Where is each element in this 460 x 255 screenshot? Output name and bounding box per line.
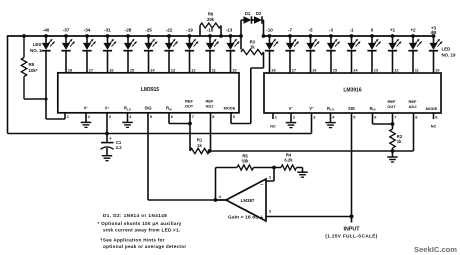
U2 pin 9 NC	[433, 113, 435, 119]
wire: LED anode rail (left segment)	[8, 35, 242, 37]
U1 pin labels	[84, 99, 236, 112]
LED 9 (-16 dB)	[205, 28, 219, 73]
wire U2 pin 7 REF OUT to R2	[392, 113, 394, 129]
diode D1 1N914	[241, 11, 252, 36]
svg-text:8: 8	[415, 114, 418, 119]
svg-text:14: 14	[353, 68, 358, 73]
LED 18 (+2 dB)	[408, 28, 422, 73]
svg-text:3: 3	[109, 114, 112, 119]
svg-text:15: 15	[130, 67, 135, 72]
LED 5 (-28 dB)	[123, 28, 137, 73]
LED 7 (-22 dB)	[164, 28, 178, 73]
wire feedback riser	[215, 168, 217, 201]
svg-text:3: 3	[269, 208, 272, 213]
svg-text:12: 12	[191, 67, 196, 72]
svg-text:V+: V+	[105, 105, 110, 110]
svg-text:RLO: RLO	[124, 106, 132, 112]
LED 13 (-5 dB)	[306, 28, 320, 73]
LED 4 (-31 dB)	[103, 28, 117, 73]
node V+ / C1	[105, 132, 109, 136]
svg-text:7: 7	[192, 114, 194, 119]
svg-text:R6: R6	[208, 12, 214, 17]
wire U1 pin 3 to V+ line	[106, 113, 108, 134]
svg-text:8: 8	[212, 114, 215, 119]
svg-text:SIG: SIG	[348, 106, 355, 111]
svg-text:4: 4	[332, 114, 335, 119]
svg-text:6: 6	[374, 114, 377, 119]
svg-text:4: 4	[129, 114, 132, 119]
resistor R5 33k	[216, 154, 282, 171]
LED 2 (-37 dB)	[61, 28, 75, 73]
svg-text:D2: D2	[256, 11, 262, 16]
resistor R8 10k (optional shunt)	[21, 36, 46, 99]
svg-text:NO. 1: NO. 1	[30, 48, 42, 53]
svg-text:-5: -5	[308, 28, 313, 33]
svg-text:2: 2	[269, 175, 272, 180]
wire: LED anode rail (right segment)	[264, 35, 434, 37]
svg-text:1k: 1k	[250, 44, 255, 49]
svg-text:2: 2	[293, 114, 296, 119]
svg-text:11: 11	[415, 68, 420, 73]
LED 6 (-25 dB)	[144, 28, 158, 73]
svg-text:SeekIC.com: SeekIC.com	[414, 245, 457, 254]
svg-text:RHI: RHI	[370, 106, 376, 112]
svg-text:-31: -31	[104, 28, 111, 33]
svg-text:OUT: OUT	[185, 104, 194, 109]
svg-text:4: 4	[219, 194, 222, 199]
svg-text:13: 13	[171, 67, 176, 72]
svg-text:15: 15	[333, 68, 338, 73]
LED 15 (-1 dB)	[347, 28, 361, 73]
svg-text:optional peak or average detec: optional peak or average detector	[103, 244, 186, 249]
IC U2 LM3916	[264, 73, 441, 113]
node: rail break left	[239, 34, 243, 38]
svg-text:INPUT: INPUT	[344, 227, 361, 233]
svg-text:sink current away from LED #1.: sink current away from LED #1.	[103, 227, 180, 232]
U2 pin labels	[289, 99, 438, 112]
node feedback junction	[272, 166, 276, 170]
svg-text:V+: V+	[309, 106, 314, 111]
svg-text:-19: -19	[186, 28, 193, 33]
svg-text:-34: -34	[84, 28, 91, 33]
svg-text:33k: 33k	[242, 159, 250, 164]
svg-text:-22: -22	[166, 28, 173, 33]
node pins 6-7	[188, 122, 192, 126]
LED 11 (-10 dB)	[265, 28, 279, 73]
node R1 right / ground bus	[208, 149, 212, 153]
svg-text:−: −	[260, 182, 263, 188]
svg-text:2: 2	[88, 114, 91, 119]
wire: ground bus from R1 to R2/pin8	[210, 150, 414, 152]
ground at U2 pin 4	[330, 113, 332, 122]
svg-text:-25: -25	[145, 28, 152, 33]
LED 8 (-19 dB)	[185, 28, 199, 73]
wire op-amp pin 2 to feedback	[266, 168, 274, 182]
op-amp IC U1 LM3915	[58, 73, 239, 113]
LED 10 (-13 dB)	[226, 28, 240, 73]
svg-text:1: 1	[67, 114, 70, 119]
capacitor C1 2.2uF	[101, 134, 123, 156]
resistor R1 1k	[190, 138, 210, 154]
ground at C1	[102, 156, 112, 161]
svg-text:2.2: 2.2	[116, 145, 122, 150]
svg-text:0: 0	[371, 28, 374, 33]
notes text	[98, 213, 187, 249]
svg-text:D1: D1	[245, 11, 251, 16]
diode D2 1N914	[252, 11, 264, 36]
svg-text:OUT: OUT	[387, 104, 396, 109]
ground at R4	[297, 172, 307, 177]
svg-text:MODE: MODE	[224, 106, 236, 111]
svg-text:LM3916: LM3916	[343, 87, 362, 93]
svg-text:-7: -7	[288, 28, 293, 33]
node op-amp output	[214, 198, 218, 202]
svg-text:14: 14	[150, 67, 155, 72]
svg-text:10: 10	[435, 68, 439, 73]
svg-text:12: 12	[394, 68, 399, 73]
svg-text:1: 1	[275, 114, 278, 119]
svg-text:* Optional shunts 100 µA auxil: * Optional shunts 100 µA auxiliary	[98, 221, 182, 226]
ground at U2 pin 2	[290, 113, 292, 122]
wire U2 SIG pin 5 to input node	[351, 113, 353, 217]
svg-text:LED: LED	[442, 47, 451, 52]
svg-text:5: 5	[150, 114, 153, 119]
wire U2 pin 8 REF ADJ down to ground bus	[413, 113, 415, 151]
LED 3 (-34 dB)	[82, 28, 96, 73]
svg-text:(1.25V FULL-SCALE): (1.25V FULL-SCALE)	[325, 234, 377, 239]
wire U1 MODE pin 9 to D2 cathode node	[231, 52, 264, 124]
svg-text:9: 9	[233, 114, 236, 119]
svg-text:ADJ: ADJ	[205, 104, 213, 109]
svg-text:10k*: 10k*	[29, 68, 38, 73]
wire op-amp pin 3 to input node	[266, 216, 352, 218]
svg-text:20k: 20k	[207, 17, 215, 22]
svg-text:Gain = 16 dB: Gain = 16 dB	[228, 214, 259, 219]
U2 pin 1 NC	[272, 113, 274, 119]
ground at R2	[387, 157, 397, 162]
svg-text:NO. 19: NO. 19	[442, 53, 456, 58]
svg-text:18: 18	[271, 68, 276, 73]
svg-text:1k: 1k	[197, 143, 202, 148]
node: rail break right	[262, 34, 266, 38]
node: R8/LED1 junction	[44, 97, 47, 100]
svg-text:+1: +1	[390, 28, 396, 33]
svg-text:-37: -37	[63, 28, 70, 33]
LED 12 (-7 dB)	[285, 28, 299, 73]
svg-text:+: +	[260, 215, 263, 221]
wire U1 pin 6 RHI to pin 7	[169, 113, 190, 124]
svg-text:11: 11	[212, 67, 217, 72]
svg-text:3: 3	[313, 114, 316, 119]
LED 16 (0 dB)	[367, 28, 381, 73]
svg-text:-10: -10	[266, 28, 273, 33]
svg-text:16: 16	[109, 67, 114, 72]
LED 1 (-40 dB)	[41, 28, 65, 119]
svg-text:LM3915: LM3915	[141, 87, 160, 93]
wire U2 pin 6 RHI to pin 7	[373, 113, 393, 124]
svg-text:ADJ: ADJ	[408, 104, 416, 109]
LED 14 (-3 dB)	[326, 28, 340, 73]
node R2 bottom / ground	[391, 149, 395, 153]
svg-text:+: +	[109, 136, 112, 141]
resistor R6 20k	[200, 12, 221, 36]
svg-text:-3: -3	[329, 28, 334, 33]
svg-text:6: 6	[171, 114, 174, 119]
svg-text:LM387: LM387	[241, 198, 255, 203]
wire U1 pin 8 REF ADJ down	[210, 113, 212, 151]
LED 17 (+1 dB)	[388, 28, 402, 73]
resistor R4 6.2k	[281, 153, 303, 172]
svg-text:V−: V−	[84, 105, 89, 110]
svg-text:D1, D2: 1N914 or 1N4148: D1, D2: 1N914 or 1N4148	[103, 213, 167, 218]
svg-text:5: 5	[353, 114, 356, 119]
svg-text:10: 10	[232, 67, 236, 72]
resistor R3 1k	[241, 36, 264, 55]
node INPUT	[349, 214, 353, 218]
svg-text:†See Application Hints for: †See Application Hints for	[100, 237, 165, 242]
svg-text:+2: +2	[410, 28, 416, 33]
svg-text:-1: -1	[349, 28, 354, 33]
wire op-amp output to node	[216, 199, 227, 201]
svg-text:17: 17	[89, 67, 93, 72]
svg-text:1k: 1k	[397, 139, 402, 144]
node U2 pins 6-7	[391, 122, 395, 126]
svg-text:SIG: SIG	[144, 106, 151, 111]
svg-text:16: 16	[312, 68, 317, 73]
svg-text:9: 9	[435, 114, 438, 119]
svg-text:LED: LED	[33, 42, 42, 47]
svg-text:dB: dB	[431, 30, 437, 35]
op-amp U3 LM387	[219, 175, 272, 222]
svg-text:13: 13	[374, 68, 379, 73]
svg-text:V−: V−	[289, 106, 294, 111]
svg-text:R8: R8	[29, 62, 35, 67]
svg-text:NC: NC	[431, 124, 437, 128]
svg-text:MODE: MODE	[426, 106, 438, 111]
wire U1 SIG pin 5 to op-amp output	[148, 113, 226, 200]
resistor R2 1k	[390, 129, 403, 157]
svg-text:-40: -40	[43, 28, 50, 33]
wire: left edge V+ drop	[7, 35, 9, 133]
wire U1 pin 7 REF OUT down to R1	[189, 113, 191, 151]
LED 19 (+3 dB)	[429, 25, 443, 73]
svg-text:17: 17	[292, 68, 296, 73]
svg-text:-28: -28	[125, 28, 132, 33]
svg-text:NC: NC	[270, 124, 276, 128]
svg-text:6.2k: 6.2k	[284, 158, 293, 163]
svg-text:RHI: RHI	[166, 106, 172, 112]
svg-text:-13: -13	[226, 28, 233, 33]
ground at U1 pin 4	[127, 113, 129, 122]
svg-text:RLO: RLO	[327, 106, 335, 112]
ground at U1 pin 2	[85, 113, 87, 122]
svg-text:7: 7	[394, 114, 396, 119]
wire: V+ line to pin 3 of both ICs	[8, 113, 312, 134]
svg-text:18: 18	[68, 67, 73, 72]
